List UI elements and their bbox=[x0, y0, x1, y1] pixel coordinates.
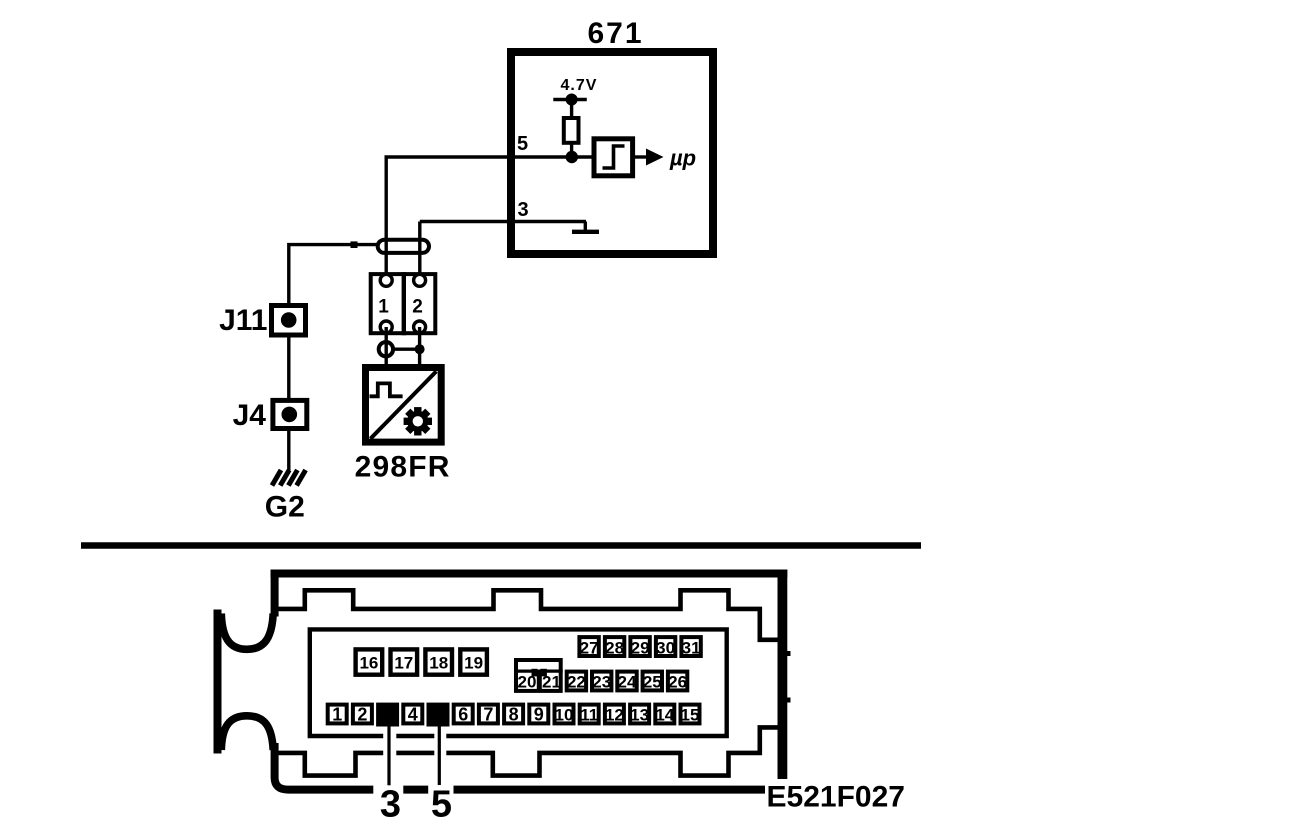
svg-text:26: 26 bbox=[668, 673, 687, 692]
svg-text:21: 21 bbox=[542, 673, 561, 692]
svg-text:3: 3 bbox=[380, 784, 401, 826]
svg-text:12: 12 bbox=[605, 706, 624, 725]
svg-text:6: 6 bbox=[458, 705, 468, 725]
svg-text:3: 3 bbox=[518, 199, 529, 221]
svg-text:28: 28 bbox=[605, 639, 624, 658]
svg-text:10: 10 bbox=[555, 706, 574, 725]
svg-text:13: 13 bbox=[630, 706, 649, 725]
svg-text:5: 5 bbox=[431, 784, 452, 826]
svg-text:14: 14 bbox=[655, 706, 674, 725]
svg-text:2: 2 bbox=[412, 297, 423, 318]
svg-text:15: 15 bbox=[681, 706, 700, 725]
svg-text:1: 1 bbox=[378, 297, 389, 318]
svg-text:11: 11 bbox=[580, 706, 598, 725]
svg-text:298FR: 298FR bbox=[355, 451, 451, 484]
svg-text:7: 7 bbox=[483, 705, 493, 725]
svg-text:E521F027: E521F027 bbox=[767, 781, 905, 814]
svg-text:17: 17 bbox=[394, 654, 413, 673]
svg-text:671: 671 bbox=[588, 17, 644, 50]
svg-text:2: 2 bbox=[357, 705, 367, 725]
svg-text:27: 27 bbox=[580, 639, 599, 658]
svg-text:J11: J11 bbox=[219, 304, 267, 337]
svg-text:19: 19 bbox=[464, 654, 483, 673]
svg-text:J4: J4 bbox=[233, 399, 267, 432]
svg-text:4.7V: 4.7V bbox=[561, 77, 598, 94]
svg-text:20: 20 bbox=[518, 673, 537, 692]
svg-text:8: 8 bbox=[509, 705, 519, 725]
svg-text:31: 31 bbox=[682, 639, 701, 658]
svg-text:9: 9 bbox=[534, 705, 544, 725]
svg-text:22: 22 bbox=[567, 673, 586, 692]
svg-text:18: 18 bbox=[429, 654, 448, 673]
svg-text:1: 1 bbox=[332, 705, 342, 725]
svg-text:23: 23 bbox=[592, 673, 611, 692]
svg-text:24: 24 bbox=[618, 673, 637, 692]
svg-text:30: 30 bbox=[656, 639, 675, 658]
svg-text:5: 5 bbox=[517, 133, 528, 155]
svg-text:29: 29 bbox=[631, 639, 650, 658]
svg-text:4: 4 bbox=[408, 705, 418, 725]
svg-text:G2: G2 bbox=[265, 491, 305, 524]
svg-text:µp: µp bbox=[669, 146, 696, 171]
svg-text:16: 16 bbox=[359, 654, 378, 673]
svg-text:25: 25 bbox=[643, 673, 662, 692]
